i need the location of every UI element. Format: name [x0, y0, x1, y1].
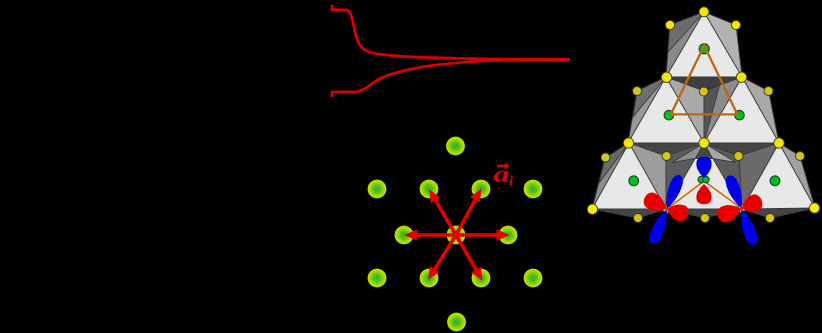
yellow ligand dots row y91: [633, 87, 774, 97]
octahedron middle-left unit: [628, 77, 704, 156]
arrow left: [404, 229, 456, 240]
green lattice atoms row3: [395, 226, 518, 245]
center site p-orbital lobes: [696, 157, 711, 204]
blue lobe up-left: [723, 173, 747, 210]
orange superexchange V lines: [667, 181, 742, 209]
octahedron bottom-middle unit: [666, 143, 742, 218]
yellow ligand dots bottom edge: [634, 214, 775, 223]
green lattice atom row5: [447, 313, 466, 332]
octahedron bottom-left unit: [592, 143, 666, 218]
blue lobe up: [696, 157, 711, 178]
red lobe left-up: [641, 190, 671, 216]
yellow ligand dots top unit: [665, 7, 740, 30]
green lattice atoms row2: [368, 180, 543, 199]
right site d-orbital lobes: [715, 173, 764, 246]
arrow down-right: [451, 232, 487, 283]
upper red energy curve: [332, 5, 570, 60]
blue lobe down-right: [736, 207, 760, 247]
lower red energy curve: [332, 60, 570, 97]
green lattice atoms row4: [368, 269, 543, 288]
yellow corner dots row y143: [623, 138, 784, 148]
green metal ions in octahedra: [629, 44, 780, 186]
octahedron top unit: [666, 12, 742, 90]
yellow corner dots row y77: [661, 72, 746, 82]
red lobe down: [696, 184, 711, 204]
arrow right: [456, 229, 510, 240]
arrow down-left: [423, 232, 461, 283]
left site d-orbital lobes: [641, 173, 690, 246]
red lobe right-up: [738, 192, 764, 216]
red lobe right-down: [664, 201, 690, 223]
blue lobe down-left: [646, 207, 672, 247]
arrow up-right: [451, 186, 486, 238]
blue lobe up-right: [661, 173, 685, 211]
green lattice atom row1: [446, 137, 465, 156]
svg-text:i: i: [509, 173, 513, 188]
octahedra cluster dark backdrop: [592, 12, 815, 218]
yellow corner dots bottom row: [587, 203, 820, 215]
six red lattice vectors from center: [404, 186, 509, 284]
arrow up-left: [424, 187, 461, 238]
octahedron middle-right unit: [704, 77, 779, 156]
octahedron bottom-right unit: [739, 143, 815, 218]
red vector label a_i: [494, 161, 514, 188]
yellow ligand dots row y156: [601, 152, 805, 163]
orange exchange triangle: [671, 46, 738, 115]
red lobe left-down: [715, 201, 744, 225]
